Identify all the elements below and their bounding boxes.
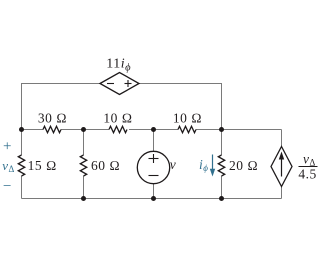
svg-text:11iϕ: 11iϕ — [106, 57, 131, 74]
svg-text:v: v — [170, 157, 177, 172]
svg-text:−: − — [3, 179, 12, 195]
svg-text:15 Ω: 15 Ω — [28, 158, 57, 173]
svg-text:+: + — [3, 139, 12, 155]
svg-text:60 Ω: 60 Ω — [91, 158, 120, 173]
svg-text:vΔ: vΔ — [303, 152, 316, 168]
svg-text:10 Ω: 10 Ω — [103, 111, 132, 126]
svg-text:4.5: 4.5 — [298, 167, 316, 182]
svg-text:30 Ω: 30 Ω — [38, 110, 67, 125]
svg-text:10 Ω: 10 Ω — [173, 111, 202, 126]
svg-text:vΔ: vΔ — [2, 158, 15, 174]
svg-text:20 Ω: 20 Ω — [229, 158, 258, 173]
svg-text:iϕ: iϕ — [199, 157, 208, 173]
